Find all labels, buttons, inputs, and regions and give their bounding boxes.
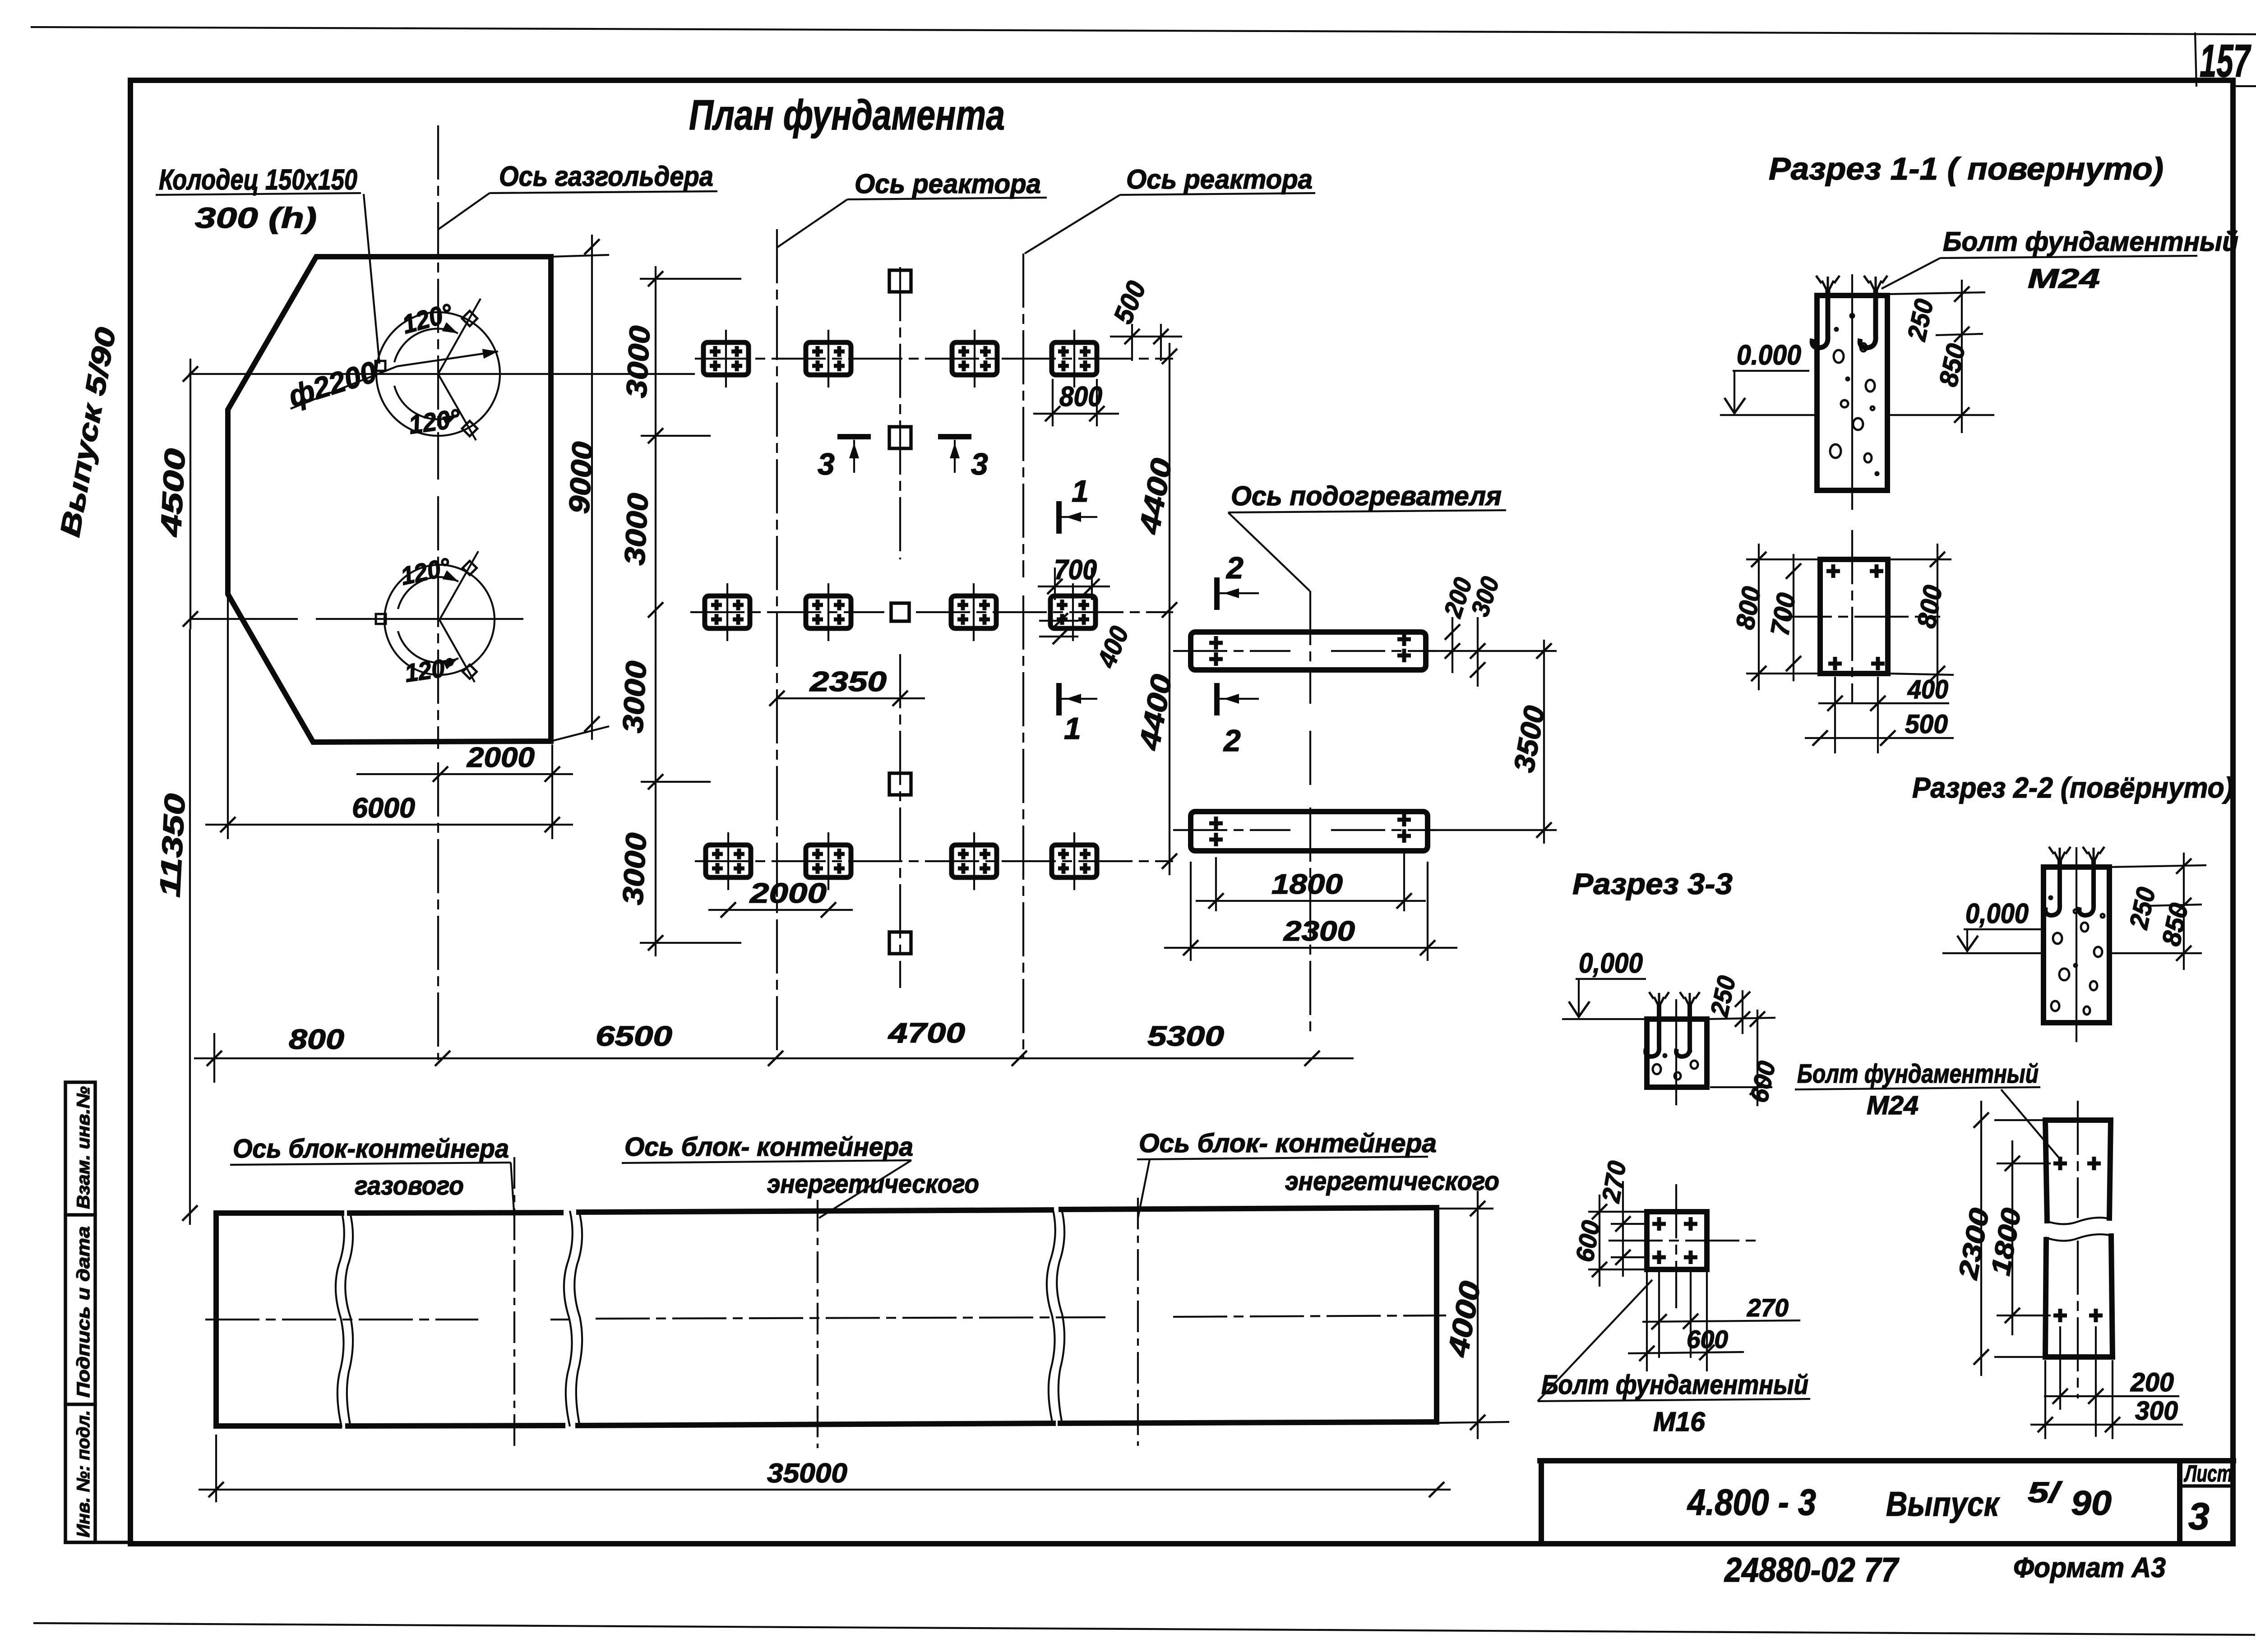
circle2 radius line down-right <box>439 620 475 682</box>
sheet number box left edge <box>2195 32 2196 87</box>
container strip segment 1 <box>216 1213 342 1426</box>
dim 2000 row3 line <box>708 909 853 911</box>
plan ext bolt left down <box>1834 677 1836 753</box>
central squares axis seg2 <box>899 654 901 988</box>
dim 11350 line <box>189 629 191 1225</box>
dim 35000 line <box>199 1489 1451 1490</box>
circle1 bolt square upper <box>462 311 477 326</box>
gazgolder axis seg1 <box>437 125 439 480</box>
section mark 1 lower bar <box>1056 686 1062 713</box>
level arrowhead r11 <box>1724 398 1745 413</box>
gazgolder axis seg3 <box>437 762 439 1060</box>
svg-text:2: 2 <box>1225 551 1244 585</box>
razrez22 anchor bolt right <box>2079 859 2094 915</box>
dim 4500 line <box>190 359 191 629</box>
foundation pad r3c1 <box>706 832 751 890</box>
leader bolt mid <box>2001 1089 2061 1160</box>
svg-text:Лист: Лист <box>2183 1461 2233 1487</box>
strip2 centerline seg2 <box>1331 829 1437 831</box>
page bottom thin line <box>33 1623 2255 1635</box>
horizontal axis circle 1 <box>189 373 695 375</box>
plan ext top right <box>1888 558 1951 560</box>
svg-text:Подпись и дата: Подпись и дата <box>74 1226 93 1398</box>
dim 6000 line <box>205 824 573 826</box>
plan ext bolt right down <box>1877 677 1879 753</box>
container strip segment 2 top <box>350 1213 561 1213</box>
f2200 diameter line <box>291 351 498 409</box>
dim 1800 line <box>1196 900 1426 902</box>
dim r11 line <box>1961 280 1963 433</box>
svg-text:Разрез 3-3: Разрез 3-3 <box>1572 867 1733 900</box>
svg-text:400: 400 <box>1907 675 1948 704</box>
podogrevatel axis seg2 <box>1309 731 1311 789</box>
chain ext left <box>213 1033 215 1083</box>
underline blok 1 <box>230 1163 511 1165</box>
circle 2 gas holder <box>384 565 495 675</box>
f2200 arrowhead <box>482 346 499 359</box>
ground line r33 right <box>1707 1018 1775 1019</box>
circle 1 gas holder 2200 <box>376 312 500 436</box>
break wave 3a <box>1047 1208 1055 1424</box>
leader os podogrevatelya <box>1228 512 1310 591</box>
level arrowhead r22 <box>1957 936 1978 951</box>
level drop r11 <box>1734 371 1735 411</box>
razrez11 anchor bolt right <box>1860 289 1876 348</box>
foundation pad r1c2 <box>806 330 851 388</box>
dim 800 left line <box>1758 544 1760 690</box>
underline blok 2 <box>622 1160 911 1163</box>
strip centerline seg4 <box>1173 1315 1446 1317</box>
bottom frame extension under stamp <box>65 1541 132 1544</box>
dim 500 line <box>1110 336 1182 337</box>
svg-text:90: 90 <box>2071 1484 2112 1523</box>
dim 2300 line <box>1164 947 1457 949</box>
svg-text:Ось блок- контейнера: Ось блок- контейнера <box>1139 1129 1437 1158</box>
ext plate left chamfer down <box>227 595 229 839</box>
svg-text:3: 3 <box>818 447 835 481</box>
dim r22 ext mid <box>2148 904 2202 906</box>
underline os podogrevatelya <box>1228 510 1506 512</box>
svg-text:2: 2 <box>1223 724 1241 758</box>
svg-text:Болт фундаментный: Болт фундаментный <box>1541 1370 1808 1400</box>
foundation pad r1c3 <box>952 330 997 388</box>
svg-text:800: 800 <box>1059 381 1102 412</box>
dim r11 ext top <box>1887 292 1985 294</box>
strip1 centerline seg2 <box>1331 650 1437 652</box>
list box divider horizontal <box>2180 1484 2233 1488</box>
svg-text:Ось реактора: Ось реактора <box>855 169 1041 199</box>
ext plate top right <box>551 255 609 257</box>
tall pier part1 outline <box>2045 1120 2111 1221</box>
tall pier part2 break <box>2045 1234 2112 1241</box>
svg-text:1800: 1800 <box>1271 869 1343 900</box>
concrete speckles razrez22 <box>2049 896 2104 1015</box>
break wave 1b <box>345 1211 353 1427</box>
circle2 bolt square upper <box>462 561 476 575</box>
central squares axis seg1 <box>899 267 901 559</box>
container strip segment 3 <box>578 1210 1053 1426</box>
svg-text:6000: 6000 <box>352 793 415 824</box>
foundation pad r2c2 <box>806 583 851 641</box>
dim 250 r33 line <box>1742 990 1743 1034</box>
dim 800 ext left <box>1052 379 1054 426</box>
circle1 angle arc upper <box>394 329 458 362</box>
dim 500 ext left <box>1131 324 1133 361</box>
dim 2000 upper line <box>356 773 573 775</box>
small square pad y623 <box>889 270 911 292</box>
svg-text:2300: 2300 <box>1283 916 1355 947</box>
tall ext edge right down <box>2112 1360 2113 1439</box>
foundation pad r1c1 <box>703 330 749 388</box>
circle1 arc arrowhead lower <box>442 410 460 426</box>
razrez 3-3 concrete block <box>1647 1019 1707 1087</box>
plan ext bottom right <box>1888 674 1954 675</box>
stamp cell divider 1 <box>65 1213 95 1217</box>
M16 ext edge right down <box>1706 1272 1708 1371</box>
M16 ext left top <box>1588 1211 1647 1213</box>
section mark 2 upper stem <box>1219 592 1259 594</box>
tall ext bolt left down <box>2059 1326 2061 1410</box>
dim 300 tall line <box>2030 1424 2183 1426</box>
svg-text:1: 1 <box>1072 474 1089 508</box>
pad plan detail r11 <box>1820 559 1888 674</box>
M16 centerline horizontal <box>1609 1240 1760 1241</box>
ground line r33 left <box>1562 1018 1647 1020</box>
blok axis 3 <box>1137 1198 1139 1446</box>
svg-text:газового: газового <box>355 1171 464 1200</box>
svg-text:3000: 3000 <box>618 492 654 566</box>
circle2 arc arrowhead lower <box>443 654 461 669</box>
level underline r33 <box>1576 978 1646 980</box>
strip2 centerline seg1 <box>1173 829 1290 831</box>
circle2 square left <box>376 614 386 624</box>
svg-text:Колодец 150x150: Колодец 150x150 <box>159 163 357 196</box>
dim 400 line <box>1818 702 1949 704</box>
M16 bolt plan square <box>1647 1212 1707 1269</box>
list box divider vertical <box>2177 1463 2182 1542</box>
section mark 1 upper stem <box>1061 516 1097 518</box>
dim 400 mark lower <box>1039 636 1078 637</box>
svg-text:М24: М24 <box>2028 263 2100 294</box>
svg-text:500: 500 <box>1905 710 1948 739</box>
break wave 3b <box>1057 1208 1064 1423</box>
plan centerline horizontal <box>1778 616 1940 618</box>
M16 ext bolt right down <box>1690 1272 1692 1358</box>
section mark 2 lower stem <box>1219 698 1259 700</box>
svg-text:3000: 3000 <box>616 660 652 734</box>
svg-text:Болт фундаментный: Болт фундаментный <box>1797 1059 2039 1089</box>
svg-text:5/: 5/ <box>2028 1476 2063 1509</box>
section mark 3 left bar <box>840 434 868 439</box>
leader blok 1 <box>511 1163 514 1218</box>
circle2 radius line up-right <box>439 551 478 620</box>
dim 2300 ext left <box>1190 862 1192 961</box>
circle2 arc arrowhead upper <box>443 570 461 586</box>
svg-text:4.800 - 3: 4.800 - 3 <box>1687 1482 1816 1523</box>
dim 4000 ext top <box>1439 1208 1493 1209</box>
level underline r11 <box>1733 370 1809 372</box>
ground line r11 right <box>1887 414 1994 416</box>
svg-text:Ось реактора: Ось реактора <box>1126 164 1313 194</box>
section 3 left arrowhead <box>849 443 859 458</box>
blok axis 1 <box>513 1157 515 1446</box>
circle1 angle arc lower <box>394 386 458 419</box>
leader os reaktora 2 <box>1025 195 1120 254</box>
circle1 bolt square lower <box>462 421 477 436</box>
tall ext bolt right down <box>2095 1326 2097 1437</box>
chain ext line top <box>640 278 741 280</box>
leader blok 3 <box>1138 1159 1150 1218</box>
gas-holder foundation plate outline <box>228 257 551 742</box>
dim 600 M16 left line <box>1599 1195 1600 1287</box>
svg-text:24880-02 77: 24880-02 77 <box>1724 1551 1900 1589</box>
dim 800 right line <box>1937 544 1938 690</box>
dim 1800 ext left <box>1215 857 1217 911</box>
row 2 centerline seg1 <box>690 611 884 613</box>
leader blok 2 <box>819 1160 911 1218</box>
kolodec square marker <box>375 361 385 371</box>
small square pad y2090 <box>889 932 911 954</box>
leader bolt top <box>1882 258 1940 289</box>
chain ext line bottom <box>640 942 741 944</box>
dim 600 r33 line <box>1757 1010 1758 1106</box>
level drop r33 <box>1578 979 1580 1015</box>
foundation pad r3c3 <box>952 832 997 890</box>
bottom chain dim line <box>194 1057 1354 1059</box>
tall ext bolts top <box>1997 1163 2051 1164</box>
svg-text:3000: 3000 <box>620 325 656 399</box>
tall ext top <box>1994 1119 2045 1121</box>
reactor axis 2 seg2 <box>1022 595 1024 1059</box>
dim 2300 ext right <box>1427 862 1428 961</box>
svg-text:М24: М24 <box>1867 1091 1919 1120</box>
foundation pad r3c2 <box>806 832 851 890</box>
plan ext top left <box>1746 558 1820 560</box>
stamp cell divider 2 <box>65 1403 95 1406</box>
underline bolt top <box>1940 256 2197 258</box>
tall pier part1 break <box>2045 1218 2111 1224</box>
dim 800 ext right <box>1096 379 1098 426</box>
dim 500 ext right <box>1160 324 1162 361</box>
foundation pad r2c3 <box>951 583 996 641</box>
dim 500 line <box>1805 737 1954 739</box>
level drop r22 <box>1966 929 1968 950</box>
level underline r22 <box>1964 928 2042 930</box>
svg-text:М16: М16 <box>1653 1407 1706 1437</box>
svg-text:11350: 11350 <box>153 793 191 898</box>
circle2 arc lower <box>398 631 458 663</box>
ext plate right edge down <box>551 744 553 839</box>
small square pad y1738 <box>889 773 911 795</box>
tall ext bolts bottom <box>1997 1315 2051 1316</box>
reactor axis 2 seg1 <box>1022 254 1024 577</box>
svg-text:Ось блок-контейнера: Ось блок-контейнера <box>233 1134 509 1163</box>
dim 600 M16 bottom line <box>1628 1352 1744 1353</box>
dim 700 line <box>1793 554 1794 681</box>
dim 2350 line <box>777 697 925 699</box>
svg-text:5300: 5300 <box>1147 1021 1224 1052</box>
section mark 2 upper bar <box>1214 580 1220 607</box>
svg-text:Взам. инв.№: Взам. инв.№ <box>74 1086 93 1209</box>
svg-text:200: 200 <box>2130 1368 2174 1397</box>
svg-text:План фундамента: План фундамента <box>689 91 1005 138</box>
tall pier centerline seg1 <box>2077 1101 2079 1218</box>
dim 600 r33 ext bottom <box>1710 1086 1772 1088</box>
svg-text:Выпуск: Выпуск <box>1886 1485 2000 1523</box>
dim 270 M16 left line <box>1622 1181 1624 1277</box>
gazgolder axis seg2 <box>437 496 439 749</box>
leader os reaktora 1 <box>777 199 847 247</box>
underline bolt M16 <box>1538 1399 1810 1401</box>
ground line r22 left <box>1942 952 2043 954</box>
svg-text:Ось подогревателя: Ось подогревателя <box>1231 481 1502 511</box>
dim 4000 line <box>1477 1191 1479 1439</box>
dim 1800 line <box>2011 1140 2013 1335</box>
level arrowhead r33 <box>1569 1001 1590 1017</box>
tall pier part2 outline <box>2045 1236 2113 1357</box>
circle2 arc upper <box>398 577 458 609</box>
container strip segment 4 <box>1060 1208 1437 1423</box>
razrez33 centerline <box>1675 999 1677 1105</box>
razrez 1-1 concrete column <box>1817 295 1887 490</box>
section mark 3 right stem <box>954 440 956 473</box>
left 3000-chain dim line <box>655 266 656 956</box>
stamp column box <box>65 1082 95 1542</box>
svg-text:1: 1 <box>1064 711 1081 746</box>
svg-text:35000: 35000 <box>767 1458 847 1488</box>
strip centerline seg2 <box>550 1319 569 1320</box>
tall ext bottom <box>1994 1356 2045 1358</box>
razrez11 anchor bolt left <box>1812 289 1828 348</box>
svg-text:9000: 9000 <box>563 441 599 515</box>
dim 800 line <box>1033 413 1119 415</box>
ground line r11 left <box>1720 414 1817 416</box>
section mark 2 lower bar <box>1214 686 1220 713</box>
dim 4400 line <box>1169 343 1170 875</box>
row 3 centerline <box>695 860 1173 862</box>
title block left edge <box>1539 1461 1544 1544</box>
dim 3500 ext top <box>1426 650 1557 652</box>
horizontal axis circle 2 seg2 <box>316 618 523 620</box>
section mark 1 lower stem <box>1061 698 1097 700</box>
dim r11 ext mid <box>1936 334 1983 335</box>
svg-text:энергетического: энергетического <box>1285 1167 1499 1196</box>
blok axis 2 <box>817 1200 818 1448</box>
svg-text:4700: 4700 <box>888 1018 965 1049</box>
razrez11 centerline <box>1851 274 1853 510</box>
svg-text:Формат А3: Формат А3 <box>2013 1552 2166 1583</box>
underline bolt mid <box>1795 1087 2040 1089</box>
svg-text:270: 270 <box>1747 1293 1789 1322</box>
ground line r22 right <box>2109 952 2202 954</box>
break wave 2b <box>574 1210 582 1426</box>
underline kolodec <box>156 193 361 195</box>
underline os reaktora 2 <box>1120 193 1315 195</box>
section 1 lower arrowhead <box>1066 694 1081 704</box>
svg-text:0,000: 0,000 <box>1965 898 2029 929</box>
section mark 3 right bar <box>941 434 969 439</box>
heater strip 2 <box>1191 812 1428 851</box>
chain ext line 2 <box>641 435 711 437</box>
svg-text:3: 3 <box>2188 1495 2210 1537</box>
svg-text:Ось газгольдера: Ось газгольдера <box>499 161 713 192</box>
dim 300 line <box>1477 617 1479 687</box>
razrez33 anchor bolt right <box>1676 1004 1690 1057</box>
container strip segment 2 bottom <box>348 1426 563 1426</box>
circle1 arc arrowhead upper <box>442 322 460 338</box>
dim 3500 ext bottom <box>1428 829 1557 831</box>
title block top line <box>1540 1458 2233 1463</box>
small square pad middle <box>891 603 909 621</box>
tall pier centerline seg2 <box>2077 1241 2079 1398</box>
svg-text:Инв. №: подл.: Инв. №: подл. <box>74 1410 93 1537</box>
concrete speckles razrez11 <box>1830 314 1878 475</box>
podogrevatel axis seg3 <box>1309 808 1311 1033</box>
svg-text:Разрез 2-2 (повёрнуто): Разрез 2-2 (повёрнуто) <box>1912 771 2233 804</box>
razrez 2-2 concrete column <box>2043 867 2109 1023</box>
leader kolodec to square <box>364 194 379 364</box>
svg-text:2000: 2000 <box>749 878 827 909</box>
dim 35000 ext left <box>215 1435 217 1502</box>
M16 centerline vertical <box>1675 1184 1677 1308</box>
svg-text:Разрез 1-1 ( повернуто): Разрез 1-1 ( повернуто) <box>1769 151 2164 186</box>
dim 270 M16 bottom line <box>1642 1320 1800 1322</box>
dim 200 tall line <box>2044 1395 2179 1397</box>
circle1 radius line up-right <box>438 299 481 374</box>
underline os reaktora 1 <box>847 198 1047 199</box>
tall ext edge left down <box>2044 1360 2046 1439</box>
dim 200 line <box>1452 617 1453 673</box>
svg-text:700: 700 <box>1054 554 1097 586</box>
section mark 3 left stem <box>853 440 855 473</box>
dim r22 line <box>2183 853 2185 970</box>
foundation pad r3c4 <box>1052 832 1097 890</box>
circle2 bolt square lower <box>462 664 476 678</box>
break wave 2a <box>564 1211 573 1426</box>
svg-text:0.000: 0.000 <box>1737 340 1801 371</box>
svg-text:2000: 2000 <box>467 742 535 773</box>
strip centerline seg3 <box>596 1317 1105 1319</box>
M16 ext bolts top <box>1611 1223 1647 1225</box>
razrez33 anchor bolt left <box>1646 1004 1659 1057</box>
M16 ext edge left down <box>1646 1272 1648 1371</box>
ext plate bottom right <box>551 726 609 741</box>
svg-text:4500: 4500 <box>154 448 191 538</box>
M16 ext bolt left down <box>1658 1272 1660 1358</box>
small square pad y970 <box>889 427 911 448</box>
horizontal axis circle 2 seg1 <box>190 618 298 620</box>
plan ext bottom left <box>1746 673 1820 674</box>
M16 ext left bottom <box>1588 1269 1647 1270</box>
leader os gazgoldera <box>439 193 490 229</box>
section mark 1 upper bar <box>1056 504 1062 531</box>
section 1 upper arrowhead <box>1066 512 1081 522</box>
svg-text:300 (h): 300 (h) <box>195 202 317 234</box>
svg-text:0,000: 0,000 <box>1579 948 1643 979</box>
concrete speckles razrez33 <box>1653 1050 1698 1080</box>
section 2 upper arrowhead <box>1224 588 1239 598</box>
chain ext line 3 <box>641 781 711 783</box>
reactor axis 1 <box>776 229 778 1059</box>
foundation pad r2c1 <box>705 583 750 641</box>
svg-text:Болт фундаментный: Болт фундаментный <box>1943 226 2238 257</box>
dim 700 ext left <box>1054 568 1056 600</box>
podogrevatel axis seg1 <box>1309 591 1311 704</box>
svg-text:Ось блок- контейнера: Ось блок- контейнера <box>624 1132 913 1162</box>
break wave 1a <box>336 1211 344 1427</box>
svg-text:6500: 6500 <box>596 1021 672 1052</box>
razrez22 anchor bolt left <box>2045 859 2060 915</box>
